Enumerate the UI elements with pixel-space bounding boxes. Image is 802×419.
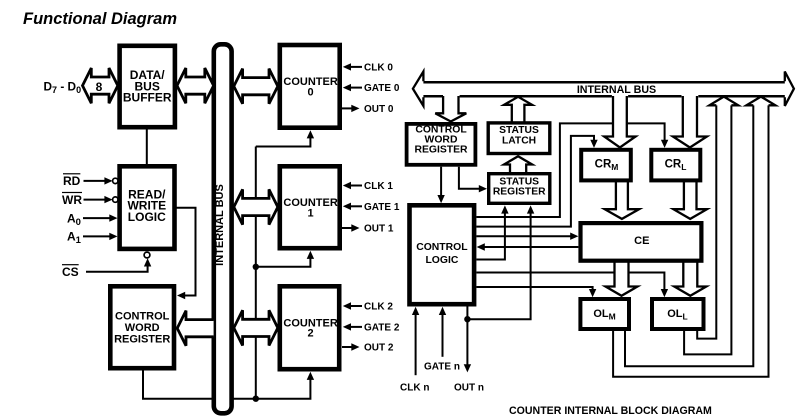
wire bottom bus CONTROL WORD REGISTER to COUNTER 2 [143, 371, 310, 399]
up arrow 1 head (OLL to bus) [709, 97, 738, 106]
svg-text:2: 2 [308, 328, 314, 340]
arrowhead into CRM top [590, 140, 597, 148]
arrowhead GATE 0 [343, 84, 351, 91]
up arrow 2 head (OLM to bus) [746, 97, 775, 106]
block COUNTER 1 [280, 166, 340, 248]
arrowhead into CONTROL WORD REGISTER right [177, 292, 185, 299]
fat arrow internal bus to COUNTER 1 [234, 189, 278, 224]
svg-text:CONTROL: CONTROL [416, 242, 468, 253]
wire OUT n output [466, 307, 468, 366]
arrowhead OUT n [464, 364, 471, 372]
block CONTROL WORD REGISTER (right) [407, 124, 476, 165]
wire OUT 0 output [342, 107, 353, 109]
fat arrow STATUS LATCH to bus [504, 97, 532, 122]
svg-text:OUT 2: OUT 2 [364, 343, 394, 354]
svg-text:REGISTER: REGISTER [114, 333, 170, 345]
block OLL [652, 299, 704, 329]
svg-text:CE: CE [634, 235, 649, 247]
svg-text:LOGIC: LOGIC [425, 255, 458, 266]
arrowhead WR [104, 196, 112, 203]
arrowhead CLK 0 [343, 63, 351, 70]
wire OUT 2 output [342, 346, 353, 348]
wire CLK n input [415, 314, 417, 376]
arrowhead into COUNTER 0 bottom [307, 130, 314, 138]
wire CLK 2 input [348, 305, 362, 307]
internal bus left arrowhead [413, 72, 424, 106]
wire CE to CONTROL LOGIC [483, 246, 578, 248]
block STATUS LATCH [488, 123, 550, 154]
arrowhead into STATUS REGISTER bottom right [527, 205, 534, 213]
fat arrow CRL to CE [673, 181, 707, 219]
svg-text:LATCH: LATCH [502, 135, 536, 146]
wire GATE 1 input [348, 205, 362, 207]
arrowhead OUT 2 [351, 343, 359, 350]
block COUNTER 2 [280, 286, 339, 369]
wire CONTROL LOGIC to OLL top [476, 273, 664, 291]
wire branch to COUNTER 0 [256, 135, 311, 147]
block CONTROL LOGIC [410, 205, 475, 304]
fat arrow internal bus to COUNTER 2 [234, 310, 278, 345]
block CE [581, 223, 702, 261]
wire DATA/BUS BUFFER to READ/WRITE LOGIC [146, 129, 148, 165]
arrowhead GATE n into CONTROL LOGIC [439, 307, 446, 315]
wire OUT 1 output [342, 227, 353, 229]
arrowhead into CONTROL LOGIC right [477, 243, 485, 250]
fat arrow DATA/BUS BUFFER to internal bus [177, 68, 214, 103]
svg-text:1: 1 [308, 207, 314, 219]
svg-text:LOGIC: LOGIC [128, 210, 166, 224]
svg-text:WORD: WORD [125, 322, 160, 334]
fat arrow D7-D0 to DATA/BUS BUFFER [83, 68, 118, 103]
fat arrow STATUS REGISTER to STATUS LATCH [504, 156, 532, 172]
block OLM [580, 299, 629, 329]
wire A0 input [83, 217, 111, 219]
svg-text:CLK 1: CLK 1 [364, 181, 393, 192]
arrowhead into OLM top [589, 289, 596, 297]
arrowhead into COUNTER 1 bottom [307, 251, 314, 259]
svg-text:CLK 0: CLK 0 [364, 63, 393, 74]
fat arrow CE to OLL [674, 263, 706, 296]
wire OLL left loop (up arrow 1 right edge) [684, 105, 731, 354]
arrowhead into OLL top [661, 289, 668, 297]
fat arrow bus to CRL [673, 96, 707, 148]
internal bus right arrowhead [785, 72, 794, 106]
svg-text:CS: CS [62, 265, 79, 279]
arrowhead OUT 1 [351, 224, 359, 231]
svg-text:Functional Diagram: Functional Diagram [23, 10, 177, 28]
bubble RD [113, 178, 118, 183]
svg-text:CLK n: CLK n [400, 383, 429, 394]
wire GATE 0 input [348, 87, 362, 89]
svg-text:OUT n: OUT n [454, 383, 484, 394]
svg-text:BUFFER: BUFFER [123, 91, 172, 105]
arrowhead into STATUS REGISTER left [479, 185, 487, 192]
arrowhead CLK n into CONTROL LOGIC [412, 307, 419, 315]
wire OUT n branch to STATUS REGISTER [467, 212, 530, 319]
wire CONTROL WORD REGISTER to CONTROL LOGIC [440, 167, 442, 197]
fat arrow CE to OLM [606, 263, 638, 296]
wire CS input [86, 263, 148, 272]
svg-text:D7 - D0: D7 - D0 [44, 80, 82, 96]
svg-text:OUT 1: OUT 1 [364, 224, 394, 235]
fat arrow bus to CONTROL WORD REGISTER [435, 96, 466, 122]
junction counter feed / COUNTER 1 branch [253, 264, 259, 270]
svg-text:CLK 2: CLK 2 [364, 302, 393, 313]
wire branch to COUNTER 1 [256, 255, 311, 267]
svg-text:CONTROL: CONTROL [115, 311, 170, 323]
wire CONTROL LOGIC to OLM top [476, 287, 592, 290]
wire OLM left loop (up arrow 2 right edge) [613, 105, 768, 376]
svg-text:REGISTER: REGISTER [493, 186, 546, 197]
arrowhead OUT 0 [351, 105, 359, 112]
bubble WR [113, 197, 118, 202]
svg-text:INTERNAL BUS: INTERNAL BUS [577, 84, 656, 96]
svg-text:OUT 0: OUT 0 [364, 104, 394, 115]
internal bus (right) top edge [423, 81, 784, 84]
junction OUT n / status branch [464, 316, 470, 322]
wire WR input [84, 199, 107, 201]
internal bus (left vertical) [214, 44, 232, 413]
wire A1 input [83, 235, 111, 237]
svg-text:GATE 0: GATE 0 [364, 83, 400, 94]
arrowhead A0 [109, 214, 117, 221]
wire READ/WRITE LOGIC to CONTROL WORD REGISTER [176, 208, 196, 296]
arrowhead CLK 2 [343, 302, 351, 309]
wire OLM right loop (up arrow 2 left edge) [625, 105, 753, 366]
arrowhead into CE left [570, 233, 578, 240]
arrowhead into COUNTER 2 bottom [307, 372, 314, 380]
block CONTROL WORD REGISTER (left) [110, 286, 174, 368]
arrowhead GATE 2 [343, 323, 351, 330]
wire CLK 1 input [348, 185, 362, 187]
arrowhead RD [104, 177, 112, 184]
svg-text:COUNTER INTERNAL BLOCK DIAGRAM: COUNTER INTERNAL BLOCK DIAGRAM [509, 405, 712, 417]
wire CONTROL LOGIC to CRM (via top) [476, 136, 594, 227]
block COUNTER 0 [280, 45, 340, 128]
svg-text:REGISTER: REGISTER [414, 145, 468, 156]
svg-text:0: 0 [308, 87, 314, 99]
svg-text:GATE n: GATE n [424, 361, 460, 372]
svg-text:RD: RD [63, 174, 81, 188]
wire CONTROL LOGIC to CE [476, 235, 572, 237]
fat arrow bus to CRM [604, 96, 635, 148]
wire CLK 0 input [348, 66, 362, 68]
svg-text:INTERNAL BUS: INTERNAL BUS [214, 184, 226, 266]
arrowhead CS into READ/WRITE LOGIC bottom [144, 258, 151, 266]
svg-text:WR: WR [62, 193, 82, 207]
fat arrow CRM to CE [605, 181, 639, 219]
arrowhead GATE 1 [343, 203, 351, 210]
wire CONTROL WORD REGISTER to STATUS REGISTER [459, 167, 481, 189]
block READ/WRITE LOGIC [120, 166, 175, 249]
block CRL [651, 150, 700, 181]
fat arrow internal bus to CONTROL WORD REGISTER [177, 311, 213, 346]
wire CONTROL LOGIC to CRL (via top) [476, 123, 664, 217]
junction bottom wire / counter feed [253, 396, 259, 402]
block STATUS REGISTER [489, 174, 550, 204]
arrowhead into CONTROL LOGIC top [437, 195, 444, 203]
arrowhead A1 [109, 233, 117, 240]
wire counter feed vertical [255, 147, 257, 399]
svg-text:GATE 1: GATE 1 [364, 202, 400, 213]
block CRM [581, 150, 631, 181]
block DATA/BUS BUFFER [120, 46, 175, 127]
svg-text:8: 8 [96, 80, 103, 94]
bubble at READ/WRITE LOGIC bottom [144, 252, 150, 258]
wire GATE n input [442, 314, 444, 357]
wire RD input [84, 180, 107, 182]
arrowhead into STATUS REGISTER bottom left [501, 205, 508, 213]
arrowhead CLK 1 [343, 182, 351, 189]
wire CONTROL LOGIC to STATUS REGISTER (left) [476, 212, 505, 259]
svg-text:GATE 2: GATE 2 [364, 323, 400, 334]
fat arrow internal bus to COUNTER 0 [234, 69, 278, 104]
arrowhead into CRL top [661, 140, 668, 148]
wire OLL right loop (up arrow 1 left edge) [697, 105, 716, 338]
internal bus (right) bottom edge [423, 95, 784, 98]
wire GATE 2 input [348, 326, 362, 328]
